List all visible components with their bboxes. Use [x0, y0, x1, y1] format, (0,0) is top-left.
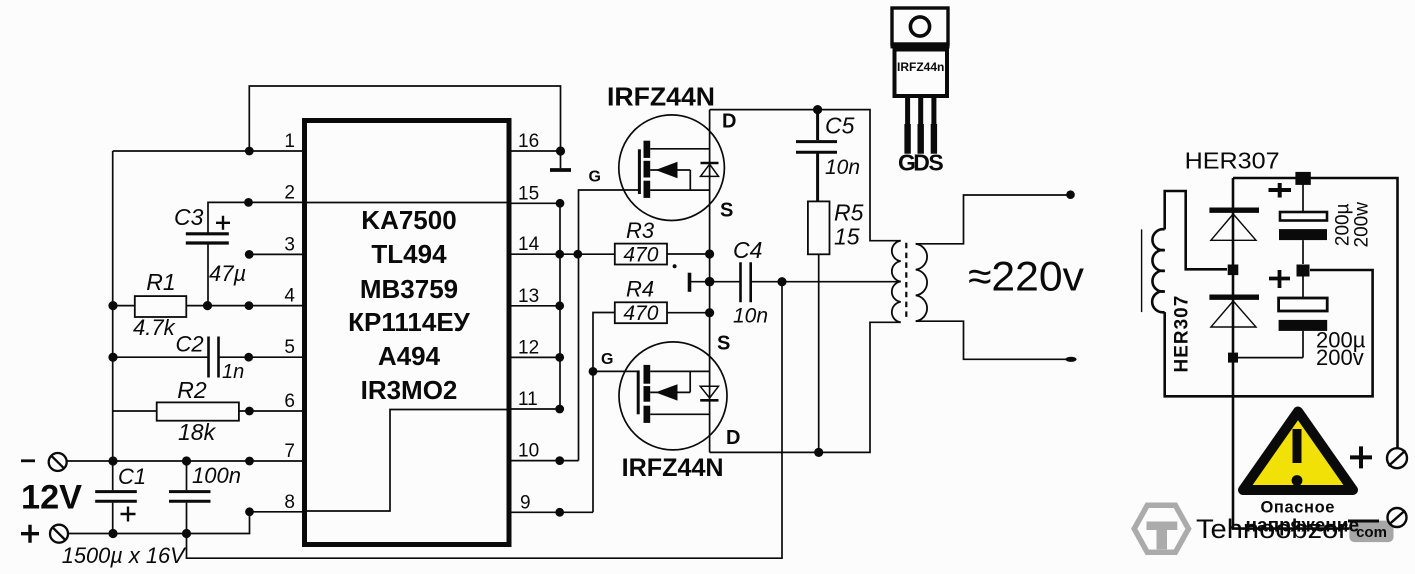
wire gate line bottom mosfet: [593, 370, 638, 372]
svg-text:R5: R5: [834, 200, 864, 226]
svg-text:HER307: HER307: [1172, 295, 1193, 373]
pin 16 stub: [509, 150, 561, 152]
Q1 arrowhead: [656, 162, 678, 178]
output terminal top: [1066, 190, 1075, 199]
plus sign Cout1: [1269, 183, 1292, 198]
svg-text:C4: C4: [733, 237, 762, 263]
transformer T1 core dashed: [905, 243, 907, 320]
terminal bar at C4 node: [688, 273, 692, 292]
svg-text:10n: 10n: [733, 305, 768, 328]
plus sign input: [21, 525, 39, 543]
ground bar pin16: [560, 151, 562, 168]
svg-text:G: G: [601, 351, 613, 368]
warning triangle: [1243, 412, 1353, 491]
watermark T letter: [1147, 522, 1178, 550]
Q2 source line: [650, 370, 709, 372]
pin 11 stub: [509, 408, 560, 410]
svg-text:D: D: [722, 111, 736, 133]
wire bottom drain to transformer: [710, 322, 901, 452]
svg-text:10: 10: [518, 441, 539, 462]
wire R4 right: [667, 312, 710, 314]
pin numbers right: [518, 131, 540, 514]
svg-text:S: S: [717, 333, 730, 355]
pin 9 stub: [509, 511, 593, 513]
wire 100n branch: [186, 461, 188, 534]
svg-text:14: 14: [518, 234, 540, 255]
wire top rail to transformer: [710, 110, 901, 241]
wire plus rail: [68, 512, 302, 534]
transistor Q1 IRFZ44N top circle: [619, 115, 725, 221]
svg-text:4.7k: 4.7k: [133, 315, 176, 340]
Q2 drain line: [650, 413, 709, 415]
capacitor C4: [741, 262, 751, 302]
Q2 arrowhead: [656, 384, 678, 400]
pin 13 stub: [509, 305, 560, 307]
svg-text:8: 8: [284, 492, 295, 513]
capacitor Cout2 200u 200v: [1233, 270, 1327, 358]
pin numbers left: [284, 131, 295, 513]
Q1 body diode: [701, 163, 719, 176]
TO-220 package tab: [892, 8, 948, 44]
capacitor C3: [186, 234, 229, 243]
svg-text:2: 2: [284, 182, 295, 203]
svg-text:R3: R3: [626, 218, 655, 243]
IC internal line pin2-pin15: [307, 202, 507, 204]
capacitor 100n: [169, 492, 211, 502]
wire bottom return: [187, 282, 783, 559]
capacitor C2: [209, 337, 219, 378]
watermark hexagon logo: [1134, 505, 1188, 552]
svg-text:напряжение: напряжение: [1246, 516, 1359, 537]
transformer T1 secondary coil: [916, 244, 927, 321]
svg-text:TL494: TL494: [371, 239, 447, 269]
watermark com badge: [1349, 521, 1393, 543]
wire minus rail pin 7 row: [67, 460, 302, 462]
svg-text:R4: R4: [626, 277, 654, 302]
Q2 body diode: [700, 386, 718, 400]
svg-text:А494: А494: [378, 341, 441, 371]
svg-text:470: 470: [623, 302, 658, 325]
svg-text:12: 12: [518, 337, 539, 358]
svg-text:MB3759: MB3759: [360, 274, 458, 304]
svg-text:C2: C2: [176, 332, 204, 357]
svg-text:5: 5: [284, 337, 295, 358]
node square dots module: [1228, 172, 1311, 363]
wire module diode bus and minus lead: [1233, 178, 1393, 529]
wire C2 row pin 5: [113, 356, 302, 358]
Q1 arrow line: [650, 170, 690, 190]
svg-text:1500µ x 16V: 1500µ x 16V: [62, 543, 187, 568]
TO-220 legs: [904, 97, 937, 154]
wire drain-source vertical between mosfets: [709, 110, 711, 453]
svg-text:D: D: [726, 427, 740, 449]
wire R3 right: [667, 253, 710, 255]
svg-text:КР1114ЕУ: КР1114ЕУ: [348, 307, 471, 337]
svg-text:≈220v: ≈220v: [968, 253, 1084, 300]
svg-text:C5: C5: [825, 113, 855, 139]
svg-text:G: G: [589, 169, 601, 186]
pin 12 stub: [509, 356, 560, 358]
pin 10 stub: [509, 460, 579, 462]
junction dots mosfet area: [673, 105, 824, 457]
svg-text:D: D: [913, 150, 930, 176]
op-amp IC box KA7500/TL494: [305, 121, 510, 545]
wire pin 1 row: [113, 150, 302, 152]
Q1 drain line: [650, 148, 709, 150]
Q2 arrow line: [650, 371, 690, 392]
TO-220 divider bar: [891, 45, 950, 49]
svg-text:HER307: HER307: [1185, 148, 1280, 174]
terminal output plus: [1387, 448, 1407, 468]
svg-text:16: 16: [518, 131, 539, 152]
Q2 gate bar: [637, 370, 640, 414]
svg-text:10n: 10n: [825, 156, 860, 179]
plus sign Cout2: [1269, 270, 1290, 288]
svg-text:200µ: 200µ: [1333, 203, 1354, 246]
wire bus pins 15-11: [559, 203, 561, 409]
svg-text:C3: C3: [174, 204, 204, 230]
wire secondary bottom lead: [916, 321, 1066, 359]
minus sign output: [1348, 520, 1379, 523]
wire pin 2 to C3: [208, 202, 302, 232]
svg-text:100n: 100n: [192, 463, 241, 488]
svg-text:1: 1: [284, 131, 295, 152]
diode D2 HER307: [1209, 297, 1259, 327]
svg-text:R1: R1: [146, 269, 175, 295]
resistor R4: [615, 302, 667, 323]
wire top loop pin1 to pin16: [249, 86, 560, 151]
svg-text:7: 7: [284, 441, 295, 462]
wire center tap C4 to transformer: [752, 281, 901, 283]
svg-text:C1: C1: [118, 464, 146, 489]
wire gate chain bottom mosfet: [593, 313, 615, 513]
svg-text:R2: R2: [177, 377, 207, 403]
svg-text:15: 15: [834, 224, 860, 250]
svg-text:com: com: [1356, 524, 1387, 541]
resistor R2: [157, 402, 239, 420]
wire left rail: [112, 151, 114, 534]
wire secondary top lead: [916, 195, 1067, 244]
wire module top rail: [1233, 178, 1398, 448]
minus sign input: [21, 459, 35, 462]
pickup coil core line: [1141, 229, 1143, 312]
svg-text:12V: 12V: [21, 479, 82, 517]
svg-text:15: 15: [518, 183, 539, 204]
junction dots left section: [108, 147, 254, 539]
wire C3 bottom: [207, 244, 209, 305]
wire T-bar to C4: [690, 281, 740, 283]
svg-text:3: 3: [284, 234, 295, 255]
svg-text:IR3MO2: IR3MO2: [361, 375, 458, 405]
output terminal bottom: [1065, 357, 1076, 362]
plus sign output: [1350, 446, 1372, 468]
pickup coil winding: [1152, 229, 1165, 312]
wire gate chain top mosfet: [579, 190, 639, 461]
diode D1 HER307: [1209, 210, 1259, 240]
svg-text:9: 9: [520, 492, 531, 513]
pin 15 stub: [509, 202, 560, 204]
wire R1 row pin 4: [113, 305, 302, 307]
terminal plus input: [50, 525, 68, 543]
Q1 source line: [650, 189, 709, 191]
svg-text:200v: 200v: [1316, 345, 1364, 370]
svg-text:11: 11: [518, 389, 538, 410]
wire R2 row pin 6: [113, 410, 302, 412]
svg-text:S: S: [720, 200, 733, 222]
svg-text:Опасное: Опасное: [1261, 499, 1336, 517]
resistor R1: [135, 296, 187, 317]
transistor Q2 IRFZ44N bottom circle: [619, 342, 727, 450]
ground bar symbol: [550, 168, 571, 172]
pin 14 stub to R3: [509, 253, 615, 255]
plus sign C1: [121, 507, 136, 522]
svg-text:KA7500: KA7500: [361, 205, 456, 235]
capacitor C5: [796, 110, 837, 202]
svg-text:IRFZ44N: IRFZ44N: [607, 82, 715, 112]
TO-220 hole: [910, 17, 929, 36]
svg-text:13: 13: [518, 286, 539, 307]
svg-text:1n: 1n: [222, 361, 244, 383]
Q1 channel bars: [644, 141, 651, 198]
TO-220 body: [895, 50, 948, 97]
capacitor Cout1 200u 200w: [1279, 178, 1327, 264]
resistor R3: [615, 244, 667, 265]
wire module loop coil bottom: [1165, 270, 1373, 396]
wire pin 3 stub: [249, 253, 302, 255]
plus sign C3: [216, 216, 230, 230]
resistor R5: [808, 201, 830, 254]
capacitor C1: [95, 492, 137, 502]
svg-text:18k: 18k: [178, 419, 217, 445]
svg-text:200w: 200w: [1352, 202, 1373, 248]
wire module zigzag coil top to diode node: [1165, 191, 1227, 269]
svg-text:470: 470: [623, 244, 658, 267]
svg-text:IRFZ44n: IRFZ44n: [897, 60, 944, 74]
terminal minus input: [49, 453, 67, 471]
terminal output minus: [1388, 508, 1407, 527]
svg-text:6: 6: [284, 391, 295, 412]
svg-text:47µ: 47µ: [209, 261, 246, 286]
junction dots IC right side: [555, 146, 597, 516]
svg-text:IRFZ44N: IRFZ44N: [622, 454, 724, 482]
wire R5 bottom: [818, 254, 820, 452]
transformer T1 primary coil: [892, 241, 901, 323]
svg-text:4: 4: [284, 286, 295, 307]
svg-text:S: S: [928, 150, 943, 176]
IC internal line pin8-pin11: [307, 410, 507, 512]
Q1 gate bar: [638, 149, 641, 194]
Q2 channel bars: [644, 365, 651, 423]
